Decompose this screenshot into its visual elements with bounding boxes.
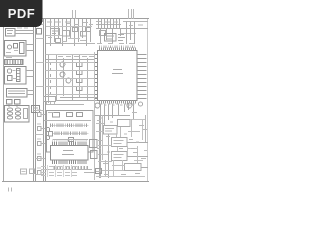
svg-text:PDF: PDF	[8, 6, 36, 21]
